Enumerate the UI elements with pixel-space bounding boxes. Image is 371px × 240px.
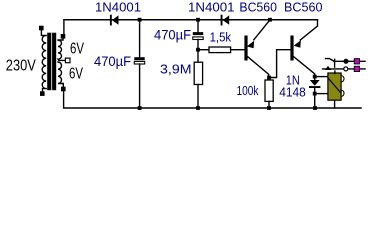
relay contact arm bbox=[326, 59, 335, 62]
terminal pin lower bbox=[354, 66, 359, 71]
transistor Q1 BC560 bbox=[244, 20, 270, 78]
wire Q2 base to node bbox=[269, 50, 290, 78]
svg-text:6V: 6V bbox=[70, 40, 84, 57]
relay actuator bbox=[334, 71, 336, 73]
svg-text:470µF: 470µF bbox=[154, 28, 191, 43]
svg-text:BC560: BC560 bbox=[239, 0, 277, 14]
relay contact tick bbox=[334, 59, 336, 67]
pin primary bottom bbox=[40, 91, 45, 96]
wire top rail bbox=[64, 20, 318, 34]
wire coil top stub bbox=[315, 76, 328, 78]
wire coil bottom stub bbox=[315, 93, 328, 95]
pin primary top bbox=[39, 26, 44, 31]
relay contact upper line bbox=[335, 60, 365, 62]
secondary winding upper bbox=[58, 39, 65, 61]
junction dots bbox=[138, 18, 317, 110]
resistor R3 100k bbox=[265, 80, 273, 101]
svg-text:4148: 4148 bbox=[279, 85, 306, 100]
terminal pin upper bbox=[354, 59, 359, 64]
primary winding bbox=[41, 30, 46, 92]
svg-text:1N4001: 1N4001 bbox=[188, 0, 235, 14]
svg-text:6V: 6V bbox=[69, 66, 83, 83]
resistor R1 1.5k bbox=[198, 49, 209, 51]
capacitor C1 470uF branch bbox=[139, 20, 141, 57]
svg-text:1,5k: 1,5k bbox=[210, 30, 232, 45]
relay coil K1 bbox=[328, 73, 344, 100]
center tap square bbox=[65, 58, 70, 63]
contact NC dot bbox=[344, 59, 349, 64]
contact moving triangle bbox=[325, 66, 331, 70]
capacitor C2 470uF branch bbox=[197, 20, 199, 32]
secondary winding lower bbox=[58, 62, 63, 87]
core bbox=[48, 33, 51, 89]
transformer T1 bbox=[39, 26, 70, 96]
wire bottom rail bbox=[64, 92, 361, 109]
contact NO circle bbox=[344, 67, 348, 71]
svg-text:470µF: 470µF bbox=[94, 54, 131, 69]
svg-text:230V: 230V bbox=[6, 57, 36, 74]
transistor Q2 BC560 bbox=[290, 20, 317, 77]
svg-text:1N4001: 1N4001 bbox=[95, 0, 141, 14]
wire coil bottom to rail bbox=[334, 100, 336, 108]
diode D3 1N4148 bbox=[309, 77, 320, 108]
svg-text:3,9M: 3,9M bbox=[160, 62, 192, 77]
diode D2 1N4001 bbox=[221, 15, 230, 26]
pin secondary bottom bbox=[61, 87, 66, 92]
relay contact lower line bbox=[323, 68, 366, 70]
resistor R2 3.9M bbox=[194, 62, 202, 84]
svg-text:100k: 100k bbox=[237, 83, 259, 98]
svg-text:BC560: BC560 bbox=[284, 0, 323, 14]
diode D1 1N4001 bbox=[110, 15, 119, 26]
pin secondary top bbox=[61, 34, 66, 39]
